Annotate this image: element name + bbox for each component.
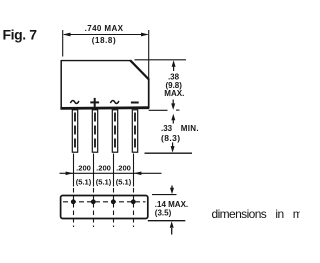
- vertical centerline pin2: [93, 188, 95, 227]
- pin 3: [112, 110, 117, 152]
- svg-text:dimensions in mm: dimensions in mm: [212, 207, 301, 221]
- package body outline: [61, 61, 149, 109]
- arrowhead left .740: [63, 33, 71, 37]
- pin 4 dot bottom view: [131, 199, 136, 204]
- svg-text:(5.1): (5.1): [116, 178, 132, 187]
- svg-text:(8.3): (8.3): [161, 133, 180, 143]
- vertical centerline pin3: [113, 188, 115, 227]
- extension line body top for .38: [135, 59, 187, 61]
- body right edge: [148, 79, 150, 108]
- arrow down .14: [171, 186, 173, 191]
- extension line pin4 pitch: [133, 154, 135, 187]
- extension line pin1 pitch: [73, 154, 75, 187]
- arrow up .38: [173, 64, 175, 72]
- arrow down .33 MIN: [172, 143, 174, 149]
- svg-text:(18.8): (18.8): [92, 36, 117, 45]
- svg-text:.33: .33: [161, 124, 173, 133]
- extension line bottom view top for .14: [152, 194, 177, 196]
- minus symbol - pin 4: [131, 102, 139, 104]
- AC symbol ~ pin 1: [70, 101, 79, 104]
- extension line pin2 pitch: [93, 154, 95, 187]
- arrow up .33 MIN: [172, 117, 174, 123]
- arrowhead right-pointing at pin1 line: [66, 172, 74, 176]
- dimension line .740 MAX: [64, 34, 148, 36]
- pin 3 dot bottom view: [111, 199, 116, 204]
- svg-text:.14 MAX.: .14 MAX.: [155, 200, 188, 209]
- svg-text:.200: .200: [76, 164, 91, 173]
- AC symbol ~ pin 3: [110, 101, 119, 104]
- horizontal centerline bottom view: [63, 201, 146, 203]
- svg-text:(5.1): (5.1): [76, 178, 92, 187]
- arrow up .14: [171, 228, 173, 235]
- extension line bottom view bottom for .14: [148, 220, 186, 222]
- pin 2: [92, 110, 97, 152]
- pin 1 dot bottom view: [71, 199, 76, 204]
- pin 4: [132, 110, 137, 152]
- vertical centerline pin4: [133, 188, 135, 227]
- extension line left .740: [62, 30, 64, 57]
- body chamfer edge: [130, 60, 149, 79]
- arrowhead right .740: [141, 33, 149, 37]
- svg-text:MAX.: MAX.: [164, 89, 184, 98]
- svg-text:MIN.: MIN.: [181, 124, 199, 133]
- extension line pin tips: [145, 152, 193, 154]
- vertical centerline pin1: [73, 188, 75, 227]
- bottom view body outline: [61, 196, 148, 219]
- svg-text:.740 MAX: .740 MAX: [85, 24, 124, 33]
- pin 2 dot bottom view: [91, 199, 96, 204]
- arrow down .38: [172, 100, 174, 107]
- body bottom thick edge: [60, 106, 149, 110]
- extension line body bottom for .38: [149, 109, 168, 111]
- plus symbol + pin 2: [90, 98, 99, 107]
- svg-text:.200: .200: [96, 164, 111, 173]
- svg-text:.200: .200: [116, 164, 131, 173]
- svg-text:Fig. 7: Fig. 7: [3, 27, 38, 43]
- svg-text:(3.5): (3.5): [155, 209, 172, 218]
- dimension line .200 pitch: [60, 172, 162, 174]
- extension line right .740: [148, 30, 150, 79]
- extension line pin3 pitch: [113, 154, 115, 187]
- svg-text:(5.1): (5.1): [96, 178, 112, 187]
- arrowhead left-pointing at pin4 line: [134, 172, 142, 176]
- pin 1: [72, 110, 77, 152]
